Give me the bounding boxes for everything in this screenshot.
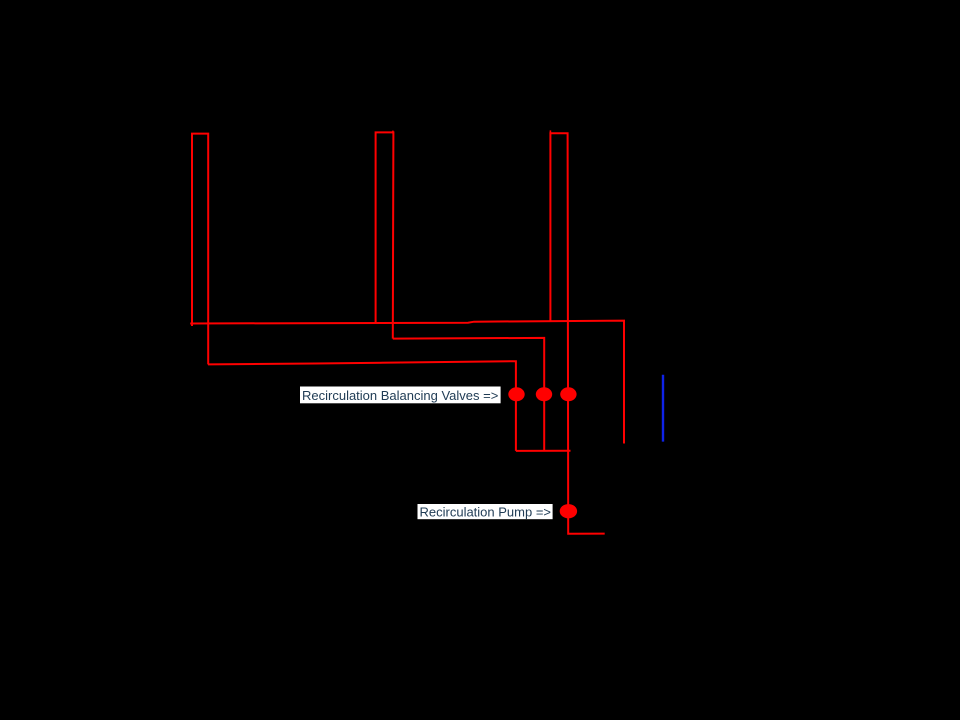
recirculation pump xyxy=(560,504,577,518)
svg-text:Recirculation Balancing Valves: Recirculation Balancing Valves => xyxy=(302,388,498,403)
svg-text:Recirculation Pump =>: Recirculation Pump => xyxy=(420,505,552,520)
riser 2 top corner tick xyxy=(392,131,394,134)
riser 1 return branch down to valve line 1 xyxy=(208,361,516,451)
supply main header with right-end drop xyxy=(190,321,624,444)
balancing valve 2 xyxy=(536,387,552,401)
pump label xyxy=(418,504,553,520)
blue reference line xyxy=(662,375,664,442)
riser 2 pipe xyxy=(376,132,394,338)
riser 3 pipe (right vertical continues down through valve to pump discharge elbow) xyxy=(550,133,604,534)
balancing valves label xyxy=(300,387,501,404)
riser 2 return branch down to valve line 2 xyxy=(393,338,544,451)
riser 1 pipe (left vertical, top, right vertical down to return branch) xyxy=(192,134,208,365)
return collector pipe xyxy=(516,450,571,452)
balancing valve 3 xyxy=(560,387,576,401)
balancing valve 1 xyxy=(508,387,524,401)
riser 3 top corner tick xyxy=(549,130,551,133)
